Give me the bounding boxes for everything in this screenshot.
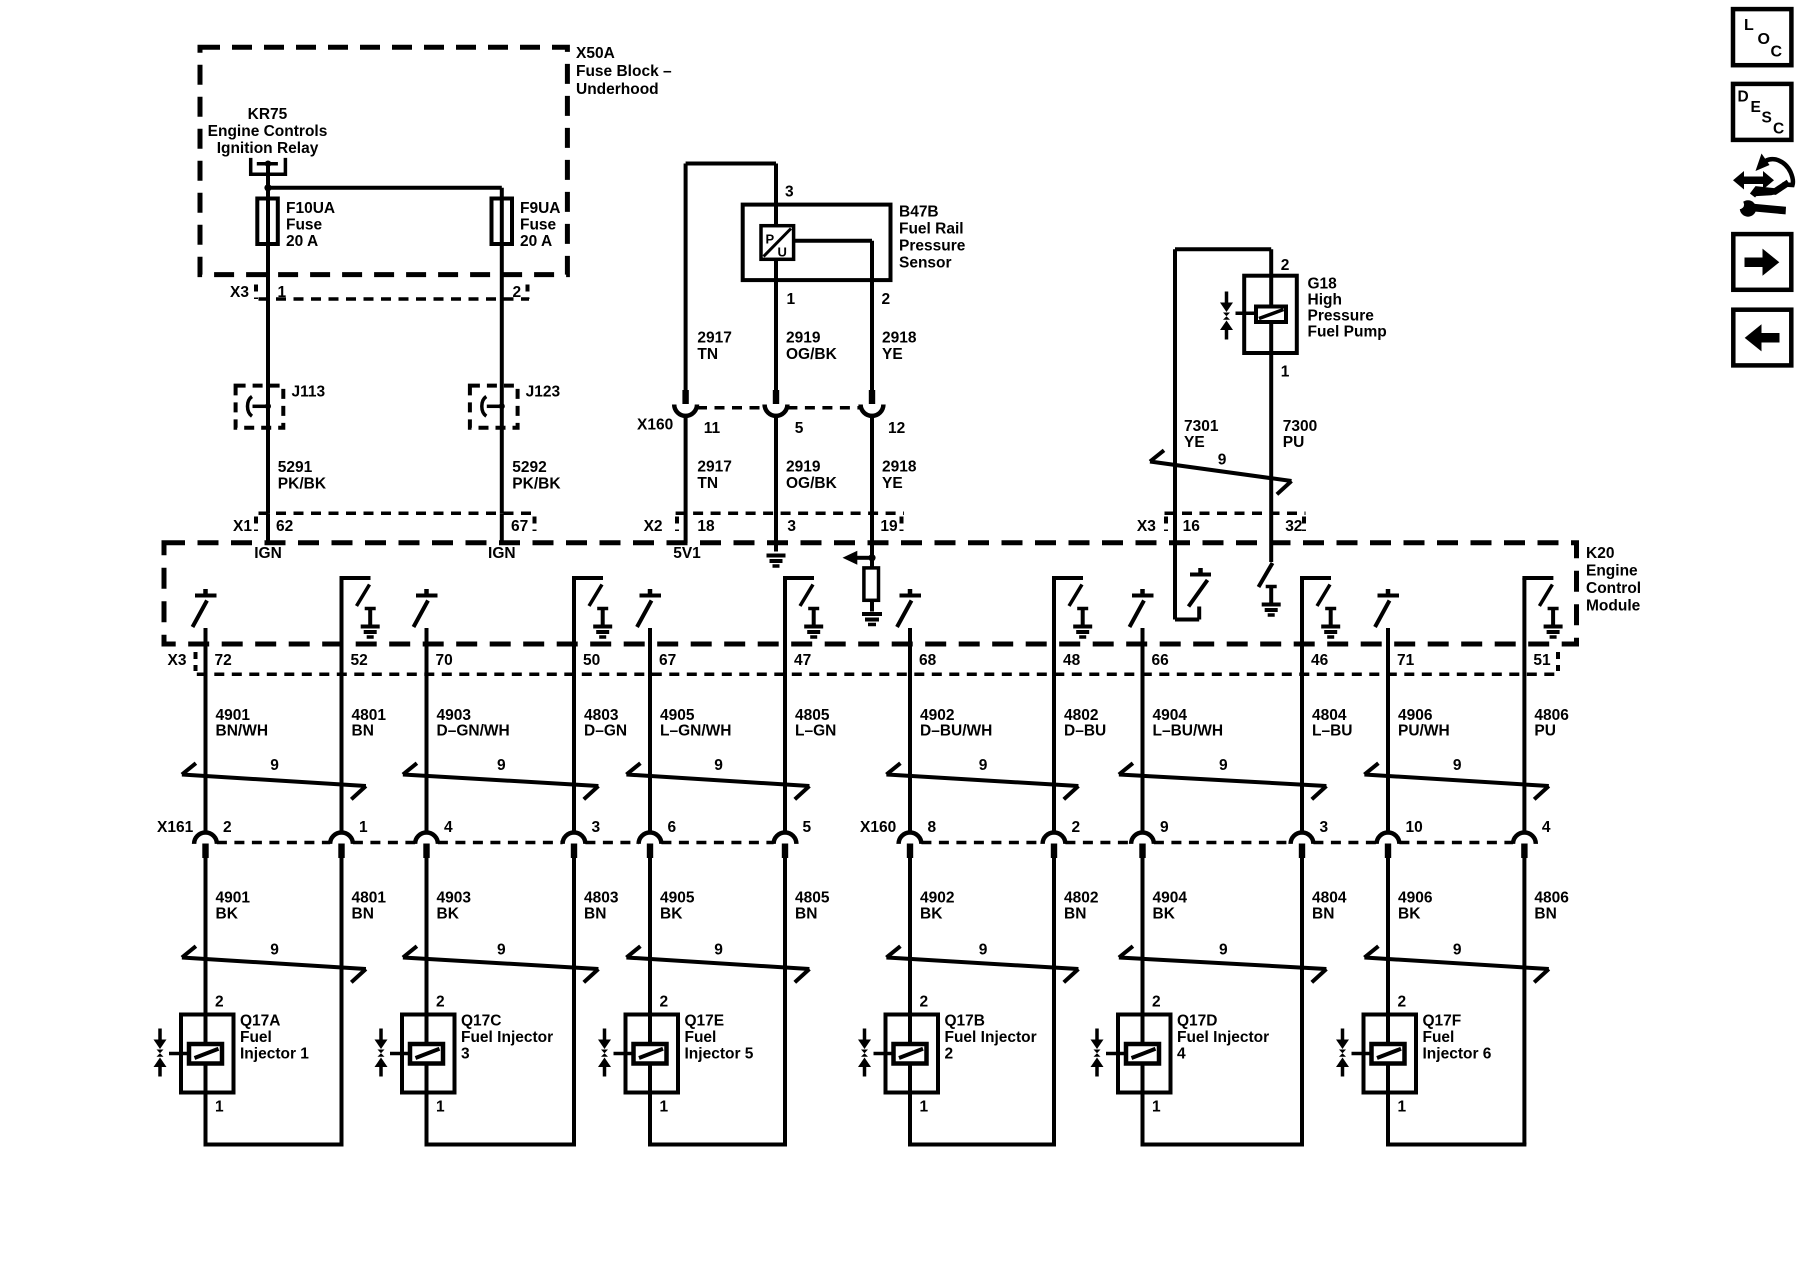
sensor P/U element [761,226,794,260]
svg-text:52: 52 [351,652,368,669]
wire sensor pin 3 [774,164,778,226]
label 2919 OG/BK (upper) [786,330,838,364]
svg-text:9: 9 [1453,942,1462,959]
wire 2918 YE from sensor pin 2 [794,241,872,558]
svg-text:BN: BN [1312,906,1334,923]
connector terminal 9 [1131,833,1154,859]
icon forward arrow button [1733,234,1791,290]
svg-text:2918: 2918 [882,330,917,347]
svg-text:2: 2 [660,994,669,1011]
svg-text:PU/WH: PU/WH [1398,723,1450,740]
twisted-pair marker 9 (Q17F upper) [1364,757,1548,799]
svg-text:4: 4 [1542,819,1551,836]
svg-text:G18: G18 [1308,276,1338,293]
label Q17F [1423,1013,1492,1063]
svg-text:Fuel Injector: Fuel Injector [1177,1029,1269,1046]
svg-text:67: 67 [659,652,676,669]
svg-text:L: L [1744,17,1754,34]
label wire 4906 PU/WH (upper) [1398,707,1450,740]
svg-text:Module: Module [1586,598,1641,615]
svg-text:4803: 4803 [584,890,619,907]
svg-text:71: 71 [1397,652,1415,669]
svg-text:BK: BK [437,906,460,923]
connector terminal 5 [774,833,797,859]
label wire 4906 BK (lower) [1398,890,1433,923]
svg-text:IGN: IGN [254,545,282,562]
svg-text:L–BU/WH: L–BU/WH [1153,723,1224,740]
twisted-pair marker 9 (Q17A upper) [182,757,366,799]
svg-text:2: 2 [1398,994,1407,1011]
injector Q17F box [1364,1015,1417,1093]
label wire 4804 L&#8211;BU (upper) [1312,707,1352,740]
wire pin 67 into ECM [500,513,504,543]
connector X161/X160 harness row [157,819,1513,843]
resistor (internal, pin 19) [864,558,879,612]
svg-text:Injector 5: Injector 5 [685,1046,754,1063]
injector Q17C valve symbol [375,1029,411,1077]
label wire 4903 BK (lower) [437,890,472,923]
svg-text:BK: BK [1398,906,1421,923]
svg-text:Fuse: Fuse [520,217,557,234]
svg-text:68: 68 [919,652,937,669]
wire 5V reference top bus [686,162,776,166]
svg-text:50: 50 [583,652,600,669]
svg-text:BN: BN [795,906,817,923]
svg-text:L–GN/WH: L–GN/WH [660,723,731,740]
svg-text:2919: 2919 [786,459,821,476]
wire pin 68 [908,628,912,833]
injector Q17E box [626,1015,679,1093]
svg-text:Q17A: Q17A [240,1013,281,1030]
svg-text:U: U [778,245,787,260]
svg-text:PK/BK: PK/BK [512,476,561,493]
injector Q17C box [402,1015,455,1093]
svg-text:BN: BN [352,906,374,923]
connector terminal 3 [563,833,586,859]
svg-text:Fuse: Fuse [286,217,323,234]
svg-text:9: 9 [270,757,279,774]
twisted-pair marker 9 (Q17D lower) [1119,942,1327,983]
svg-text:5292: 5292 [512,459,546,476]
wire pin 62 into ECM [266,513,270,543]
svg-text:Engine Controls: Engine Controls [208,123,328,140]
driver ground branch pin 52 [340,578,380,637]
svg-text:4806: 4806 [1534,890,1569,907]
svg-text:2: 2 [1281,257,1290,274]
wire pin 51 [1522,578,1526,833]
twisted-pair marker 9 (Q17D upper) [1119,757,1327,799]
svg-text:4902: 4902 [920,890,954,907]
svg-text:X3: X3 [1137,518,1156,535]
svg-text:X160: X160 [860,819,896,836]
svg-text:BN/WH: BN/WH [216,723,269,740]
svg-text:6: 6 [668,819,677,836]
svg-text:TN: TN [697,346,718,363]
svg-text:1: 1 [1281,364,1290,381]
wire pin 67 [648,628,652,833]
label wire 4801 BN (lower) [352,890,387,923]
icon LOC button [1733,9,1791,65]
wire pin 72 [204,628,208,833]
label wire 4801 BN (upper) [352,707,387,740]
twisted-pair marker 9 (Q17C lower) [403,942,599,983]
svg-text:IGN: IGN [488,545,516,562]
injector Q17B box [886,1015,939,1093]
label F9UA Fuse 20 A [520,200,560,250]
svg-text:KR75: KR75 [248,106,288,123]
svg-text:4803: 4803 [584,707,619,724]
svg-text:X50A: X50A [576,45,615,62]
svg-text:2: 2 [513,284,522,301]
wire 4901 BK (lower) [204,858,208,1145]
svg-text:Fuse Block –: Fuse Block – [576,63,672,80]
pump G18 solenoid [1256,307,1286,323]
wire pump top bus [1175,247,1271,251]
injector Q17B return wire [908,1143,1056,1147]
driver switch pin 68 [897,589,921,627]
svg-text:F9UA: F9UA [520,200,560,217]
svg-text:3: 3 [785,184,794,201]
wire pin 47 [783,578,787,833]
label F10UA Fuse 20 A [286,200,335,250]
svg-text:4906: 4906 [1398,707,1433,724]
svg-text:16: 16 [1183,518,1201,535]
svg-text:5V1: 5V1 [673,545,701,562]
driver switch pin 70 [414,589,438,627]
connector terminal 10 [1377,833,1400,859]
wire pin 71 [1386,628,1390,833]
wire 2919 OG/BK vertical [774,259,778,551]
svg-text:Pressure: Pressure [899,238,966,255]
svg-text:D–BU/WH: D–BU/WH [920,723,992,740]
injector Q17C solenoid [410,1044,443,1064]
wire 2917 TN vertical [684,164,688,544]
driver switch pin 66 [1130,589,1154,627]
svg-text:X160: X160 [637,417,673,434]
svg-text:BK: BK [216,906,239,923]
svg-text:32: 32 [1285,518,1302,535]
svg-text:4903: 4903 [437,707,472,724]
icon connector repair [1733,154,1793,217]
label wire 4903 D&#8211;GN/WH (upper) [437,707,510,740]
svg-text:4804: 4804 [1312,890,1347,907]
svg-text:9: 9 [714,942,723,959]
svg-text:O: O [1758,31,1770,48]
injector Q17A valve symbol [154,1029,190,1077]
driver ground branch pin 50 [572,578,612,637]
driver ground branch pin 47 [783,578,823,637]
svg-text:4901: 4901 [216,890,251,907]
svg-text:Fuel: Fuel [685,1029,717,1046]
label wire 5291 PK/BK (upper) [278,459,327,493]
svg-text:9: 9 [1219,942,1228,959]
svg-text:Fuel Rail: Fuel Rail [899,221,964,238]
wire pin 52 [340,578,344,833]
svg-text:J113: J113 [292,384,326,401]
svg-text:9: 9 [1219,757,1228,774]
svg-text:4801: 4801 [352,707,387,724]
svg-text:Fuel: Fuel [240,1029,272,1046]
svg-text:2: 2 [223,819,232,836]
label 7301 YE [1184,418,1219,451]
injector Q17D return wire [1141,1143,1305,1147]
svg-text:X161: X161 [157,819,194,836]
svg-text:Sensor: Sensor [899,255,952,272]
svg-text:OG/BK: OG/BK [786,475,838,492]
svg-text:L–BU: L–BU [1312,723,1352,740]
label wire 4904 BK (lower) [1153,890,1188,923]
injector Q17C return wire [425,1143,577,1147]
svg-text:2918: 2918 [882,459,917,476]
svg-text:Q17B: Q17B [945,1013,986,1030]
driver switch pin 67 [637,589,661,627]
injector Q17F valve symbol [1336,1029,1372,1077]
fuse block X50A dashed box [200,47,567,274]
svg-text:D–GN: D–GN [584,723,627,740]
svg-text:D–BU: D–BU [1064,723,1106,740]
svg-text:1: 1 [1398,1099,1407,1116]
svg-text:OG/BK: OG/BK [786,346,838,363]
svg-text:12: 12 [888,420,905,437]
wire 4803 BN (lower) [572,858,576,1145]
label B47B Fuel Rail Pressure Sensor [899,204,966,272]
twisted-pair marker 9 (pump) [1150,450,1292,494]
relay KR75 terminal symbol [251,158,286,174]
svg-text:Fuel: Fuel [1423,1029,1455,1046]
svg-text:X1: X1 [233,518,252,535]
driver ground branch pin 51 [1522,578,1562,637]
svg-text:4901: 4901 [216,707,251,724]
svg-text:62: 62 [276,518,293,535]
wire junction to F9UA [268,188,502,514]
svg-text:P: P [766,232,775,247]
label wire 4806 BN (lower) [1534,890,1569,923]
svg-text:4904: 4904 [1153,707,1188,724]
svg-text:BN: BN [1064,906,1086,923]
connector terminal 2 [1043,833,1066,859]
svg-text:70: 70 [436,652,453,669]
injector Q17A solenoid [189,1044,222,1064]
label wire 4805 L&#8211;GN (upper) [795,707,836,740]
svg-text:5291: 5291 [278,459,313,476]
twisted-pair marker 9 (Q17B upper) [886,757,1078,799]
wire 4802 BN (lower) [1052,858,1056,1145]
injector Q17D solenoid [1126,1044,1159,1064]
svg-text:3: 3 [1320,819,1329,836]
svg-text:BN: BN [584,906,606,923]
svg-text:BK: BK [920,906,943,923]
svg-text:48: 48 [1063,652,1081,669]
twisted-pair marker 9 (Q17C upper) [403,757,599,799]
ground (below resistor) [862,614,882,625]
injector Q17B valve symbol [858,1029,894,1077]
svg-text:3: 3 [787,518,796,535]
wire pin 50 [572,578,576,833]
injector Q17E valve symbol [598,1029,634,1077]
wire 7301 YE vertical [1173,249,1177,619]
svg-text:4902: 4902 [920,707,954,724]
label wire 4803 D&#8211;GN (upper) [584,707,627,740]
label wire 5292 PK/BK (upper) [512,459,561,493]
connector X2 row (ECM) [644,513,904,535]
label wire 4905 BK (lower) [660,890,695,923]
label 2917 TN (upper) [697,330,731,364]
wire 4903 BK (lower) [425,858,429,1145]
wire 4902 BK (lower) [908,858,912,1145]
label 2919 OG/BK (lower) [786,459,838,493]
wire pin 70 [425,628,429,833]
junction dot (pin 19 net) [868,554,875,561]
svg-text:19: 19 [880,518,898,535]
wire 4804 BN (lower) [1300,858,1304,1145]
svg-text:E: E [1751,99,1761,116]
svg-text:S: S [1762,110,1772,127]
twisted-pair marker 9 (Q17B lower) [886,942,1078,983]
inline connector J113 [236,386,284,428]
driver ground branch pin 46 [1300,578,1340,637]
svg-text:4802: 4802 [1064,707,1098,724]
wire 4906 BK (lower) [1386,858,1390,1145]
twisted-pair marker 9 (Q17A lower) [182,942,366,983]
svg-text:PU: PU [1283,434,1305,451]
svg-text:Q17C: Q17C [461,1013,502,1030]
switch + ground pin 32 [1259,563,1281,615]
injector Q17A return wire [204,1143,344,1147]
svg-text:YE: YE [882,346,903,363]
injector Q17E return wire [648,1143,787,1147]
svg-text:C: C [1773,121,1784,138]
svg-text:1: 1 [660,1099,669,1116]
svg-text:9: 9 [714,757,723,774]
label K20 Engine Control Module [1586,545,1641,615]
connector terminal 1 [330,833,353,858]
svg-text:1: 1 [278,284,287,301]
svg-text:BK: BK [1153,906,1176,923]
svg-text:2917: 2917 [697,459,731,476]
connector terminal 8 [899,833,922,859]
label wire 4805 BN (lower) [795,890,830,923]
label wire 4905 L&#8211;GN/WH (upper) [660,707,731,740]
driver switch pin 16 (pump control) [1175,568,1211,620]
label Q17E [685,1013,754,1063]
svg-text:F10UA: F10UA [286,200,335,217]
svg-text:K20: K20 [1586,545,1614,562]
svg-text:2: 2 [436,994,445,1011]
svg-text:B47B: B47B [899,204,939,221]
svg-text:7300: 7300 [1283,418,1317,435]
svg-text:YE: YE [882,475,903,492]
svg-text:18: 18 [697,518,715,535]
svg-text:Control: Control [1586,580,1641,597]
svg-text:Underhood: Underhood [576,81,659,98]
label X50A Fuse Block - Underhood [576,45,672,98]
svg-text:2: 2 [215,994,224,1011]
svg-text:4805: 4805 [795,890,830,907]
icon DESC button [1733,84,1791,140]
driver switch pin 72 [193,589,217,627]
inline connector J123 [470,386,518,428]
svg-text:BN: BN [1534,906,1556,923]
svg-text:1: 1 [215,1099,224,1116]
svg-text:D–GN/WH: D–GN/WH [437,723,510,740]
svg-text:1: 1 [920,1099,929,1116]
svg-text:9: 9 [1160,819,1169,836]
svg-text:PK/BK: PK/BK [278,476,327,493]
svg-text:5: 5 [803,819,812,836]
driver switch pin 71 [1375,589,1399,627]
relay KR75 label [208,106,328,157]
label wire 4802 D&#8211;BU (upper) [1064,707,1106,740]
svg-text:4904: 4904 [1153,890,1188,907]
svg-text:Fuel Pump: Fuel Pump [1308,324,1387,341]
svg-text:2: 2 [882,291,891,308]
sensor B47B box [743,205,891,281]
label 2918 YE (upper) [882,330,917,364]
svg-text:1: 1 [787,291,796,308]
svg-text:High: High [1308,292,1342,309]
svg-text:X3: X3 [168,652,187,669]
svg-text:4905: 4905 [660,890,695,907]
svg-text:9: 9 [497,942,506,959]
label Q17A [240,1013,309,1063]
svg-text:66: 66 [1152,652,1170,669]
label wire 4904 L&#8211;BU/WH (upper) [1153,707,1224,740]
svg-text:9: 9 [1218,452,1227,469]
off-page arrow (pin 19 net) [843,551,873,565]
svg-text:2917: 2917 [697,330,731,347]
svg-text:7301: 7301 [1184,418,1219,435]
fuse F10UA [257,199,278,245]
svg-text:Q17E: Q17E [685,1013,725,1030]
twisted-pair marker 9 (Q17F lower) [1364,942,1548,983]
label wire 4806 PU (upper) [1534,707,1569,740]
svg-text:4903: 4903 [437,890,472,907]
connector terminal 3 [1291,833,1314,859]
svg-text:11: 11 [704,420,721,437]
injector Q17F return wire [1386,1143,1526,1147]
svg-text:20 A: 20 A [286,233,318,250]
svg-text:D: D [1738,89,1749,106]
svg-text:9: 9 [497,757,506,774]
svg-text:2: 2 [920,994,929,1011]
svg-text:72: 72 [215,652,232,669]
injector Q17A box [181,1015,234,1093]
svg-text:2919: 2919 [786,330,821,347]
connector terminal 2 [194,833,217,858]
svg-text:Fuel Injector: Fuel Injector [461,1029,553,1046]
svg-text:Q17F: Q17F [1423,1013,1462,1030]
svg-text:67: 67 [511,518,528,535]
injector Q17D valve symbol [1091,1029,1127,1077]
svg-text:X2: X2 [644,518,663,535]
svg-text:C: C [1771,44,1783,61]
svg-text:20 A: 20 A [520,233,552,250]
wire 7300 PU vertical [1269,249,1273,562]
label 2918 YE (lower) [882,459,917,493]
svg-text:PU: PU [1534,723,1556,740]
svg-text:Ignition Relay: Ignition Relay [217,140,319,157]
svg-text:51: 51 [1533,652,1551,669]
label wire 4902 BK (lower) [920,890,954,923]
svg-text:Engine: Engine [1586,563,1638,580]
svg-text:2: 2 [1072,819,1081,836]
wire relay to fuses [266,164,270,514]
svg-text:YE: YE [1184,434,1205,451]
svg-text:4801: 4801 [352,890,387,907]
label G18 High Pressure Fuel Pump [1308,276,1387,341]
injector Q17D box [1118,1015,1171,1093]
svg-text:10: 10 [1406,819,1423,836]
